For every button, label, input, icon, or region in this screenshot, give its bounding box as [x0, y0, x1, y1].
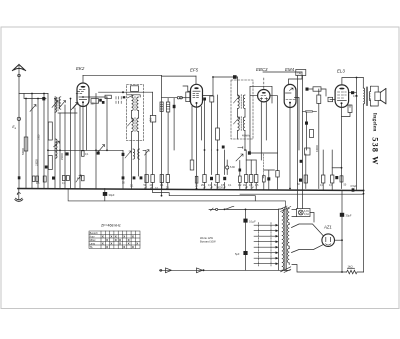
svg-text:X: X: [123, 245, 125, 249]
svg-text:0,1μF: 0,1μF: [249, 220, 256, 224]
svg-text:50000: 50000: [216, 187, 223, 190]
svg-text:X: X: [102, 242, 104, 246]
svg-text:X: X: [115, 238, 117, 242]
svg-text:X: X: [128, 242, 130, 246]
svg-text:50000: 50000: [22, 148, 25, 155]
svg-text:30μF: 30μF: [346, 214, 352, 218]
svg-text:0,3A: 0,3A: [304, 213, 309, 216]
svg-text:ZF=468 kHz: ZF=468 kHz: [101, 224, 121, 228]
svg-text:X: X: [132, 245, 134, 249]
svg-text:Bussard 10W: Bussard 10W: [200, 240, 216, 244]
svg-text:2M: 2M: [201, 184, 204, 187]
svg-text:1M: 1M: [243, 184, 246, 187]
svg-text:30μF: 30μF: [109, 193, 115, 197]
svg-text:25000: 25000: [61, 153, 64, 160]
svg-text:100: 100: [91, 103, 96, 106]
svg-text:1000: 1000: [37, 134, 40, 140]
svg-text:X: X: [136, 242, 138, 246]
svg-text:Bereich: Bereich: [90, 232, 99, 235]
svg-text:464kHz: 464kHz: [242, 135, 251, 138]
svg-text:40000: 40000: [316, 145, 319, 152]
svg-text:5-80: 5-80: [230, 166, 235, 169]
svg-text:5μF: 5μF: [235, 252, 240, 256]
svg-text:Ingelen: Ingelen: [371, 113, 377, 133]
svg-text:0,01: 0,01: [353, 95, 358, 98]
svg-text:X: X: [102, 235, 104, 239]
svg-text:X: X: [106, 238, 108, 242]
svg-text:EBC3: EBC3: [256, 67, 268, 72]
svg-text:EM4: EM4: [285, 67, 295, 72]
svg-text:EL3: EL3: [337, 69, 345, 74]
svg-text:TA: TA: [90, 246, 93, 249]
svg-text:Werte 12W: Werte 12W: [200, 236, 213, 240]
svg-text:X: X: [106, 245, 108, 249]
svg-text:EK2: EK2: [76, 66, 85, 71]
svg-text:X: X: [110, 235, 112, 239]
svg-text:538 W: 538 W: [370, 137, 379, 165]
svg-text:1kΩ: 1kΩ: [348, 265, 353, 269]
svg-text:X: X: [119, 242, 121, 246]
svg-text:10000: 10000: [36, 159, 39, 166]
svg-text:X: X: [110, 242, 112, 246]
svg-text:X: X: [123, 235, 125, 239]
svg-text:X: X: [132, 235, 134, 239]
svg-text:EF5: EF5: [190, 68, 199, 73]
svg-text:AZ1: AZ1: [323, 225, 332, 230]
